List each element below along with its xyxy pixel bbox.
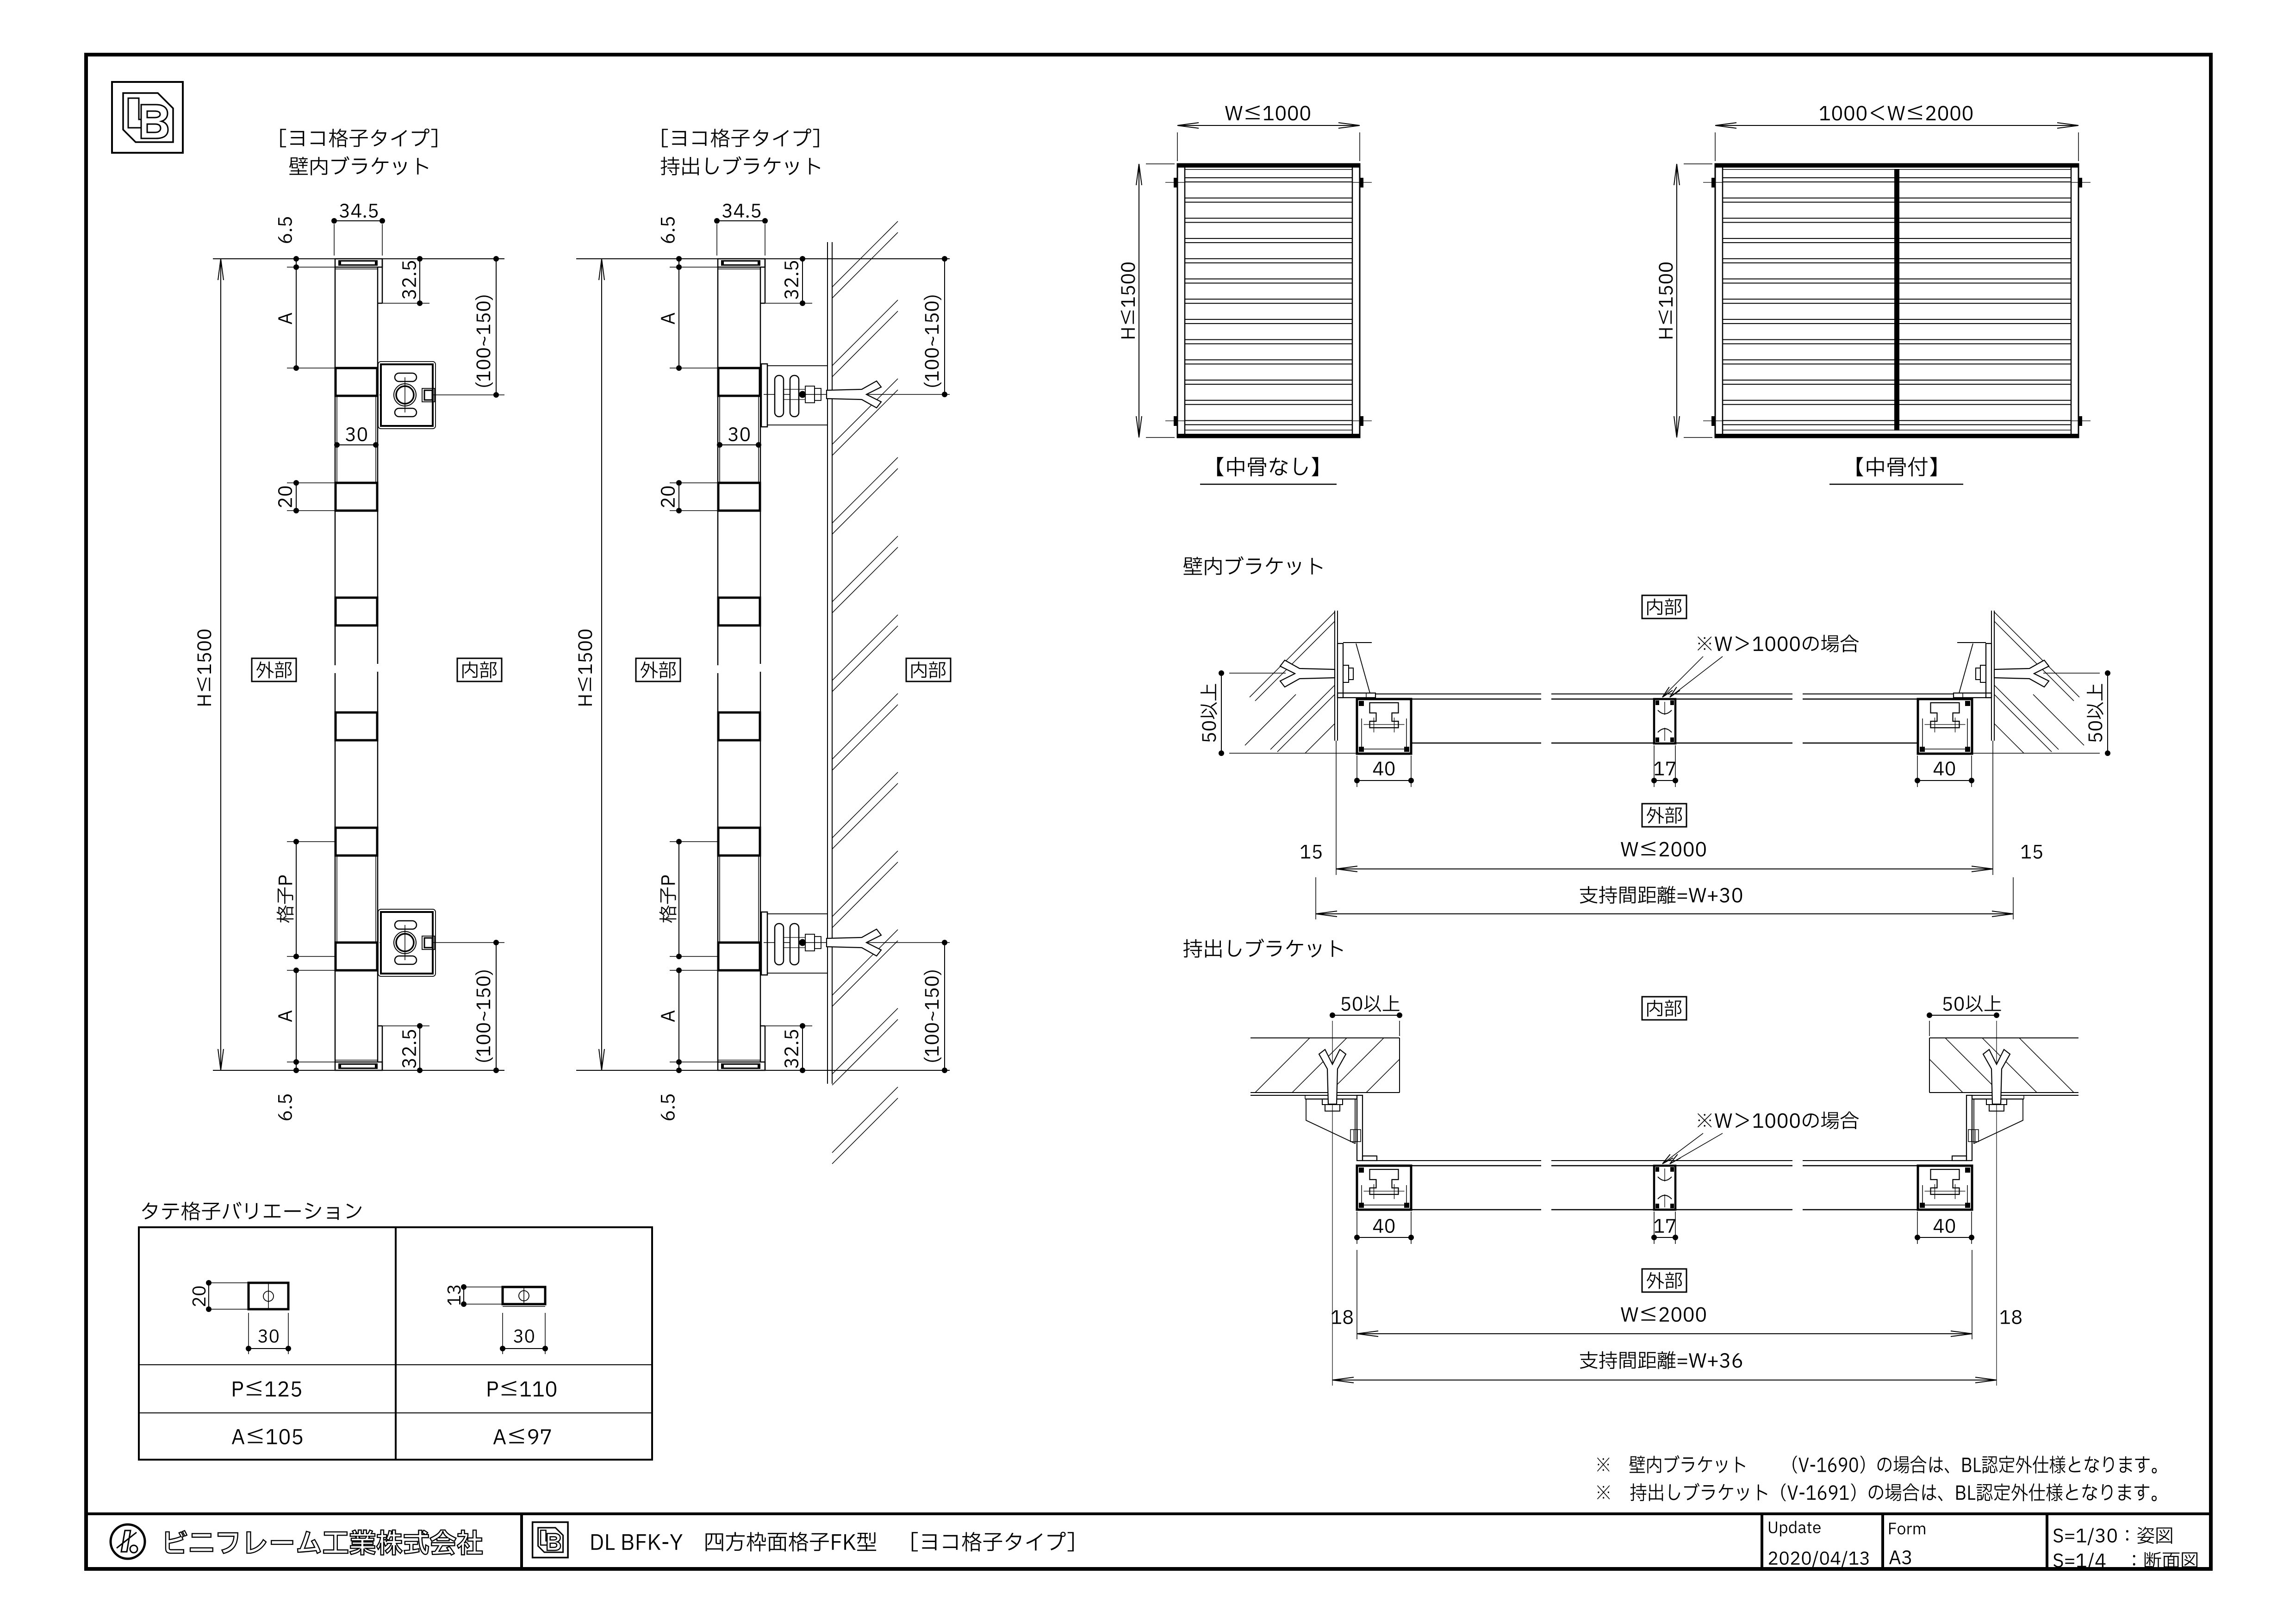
dim 40 left: [1356, 1212, 1357, 1244]
vertical frame bar (section): [717, 267, 719, 665]
anchor bolt (hs1 left): [1980, 665, 1986, 682]
support centerline (hs2 left): [1996, 1021, 1997, 1250]
dim 格子P pitch: [296, 842, 297, 956]
wall cut (hs1 left): [1334, 611, 1335, 741]
label 内部 (hs1): [1642, 595, 1686, 618]
dim W≦1000: [1177, 106, 1360, 161]
dim 支持間距離=W+30 (hs1): [1316, 877, 2013, 919]
tube inner walls at bracket gaps: [719, 397, 720, 482]
lattice bar cross-section 2: [718, 483, 760, 511]
wall bracket top (view1): [378, 362, 504, 429]
dim A bottom: [296, 970, 297, 1062]
front view 1 (中骨なし): [1165, 164, 1372, 437]
heading 持出しブラケット (horizontal section 2): [1183, 939, 1343, 958]
bottom cap: [335, 1062, 382, 1070]
dim 50以上 right (hs2): [1927, 995, 2001, 1036]
dim 6.5 bottom: [296, 1062, 297, 1070]
right stile box (hs2): [1918, 1166, 1972, 1210]
dim 格子P pitch: [678, 842, 679, 956]
Scale cell: [2053, 1527, 2197, 1570]
Form cell: [1889, 1523, 1925, 1564]
lattice bar cross-section 5: [718, 828, 760, 856]
dim 40 right: [1917, 756, 1918, 787]
label 内部 (view2): [906, 658, 951, 681]
dim 17 center: [1654, 1212, 1655, 1244]
support centerline (hs2 left): [1332, 1021, 1333, 1250]
section view 1 left dimension column: [277, 217, 335, 1120]
lattice bar cross-section 5: [336, 828, 377, 856]
table タテ格子バリエーション: [142, 1202, 361, 1220]
soffit and bracket right (hs2, mirrored): [1929, 1021, 2078, 1250]
note line 1: [1597, 1455, 2157, 1474]
drawing title DL BFK-Y: [591, 1532, 1074, 1552]
dim 1000<W≦2000: [1715, 106, 2078, 161]
dim 30 tube depth: [717, 442, 722, 448]
section view 1 title [ヨコ格子タイプ] 壁内ブラケット: [280, 129, 437, 175]
dim A bottom: [678, 970, 679, 1062]
lattice bar cross-section 1: [718, 368, 760, 396]
label 外部 (hs1): [1642, 804, 1686, 827]
dim 50以上 right (hs1): [1973, 670, 2110, 756]
dim W≦2000 (hs2): [1332, 1250, 2022, 1339]
dim 13 (right tube): [448, 1284, 502, 1307]
section view 2 left dimension column: [660, 217, 718, 1120]
lattice bar cross-section 4: [718, 712, 760, 740]
label 外部 (hs2): [1642, 1269, 1686, 1292]
lattice bar cross-section 6: [718, 943, 760, 970]
wall (view2) with hatch: [828, 221, 898, 1164]
dim (100~150) top (view1): [475, 256, 499, 398]
projecting bracket (hs2 left): [2023, 1095, 2024, 1099]
dim 40 left: [1356, 756, 1357, 787]
label 外部 (view2): [636, 658, 680, 681]
dim 30 tube depth: [334, 442, 340, 448]
lattice bars fv1: [1185, 178, 1352, 182]
wall and in-wall bracket right (hs1, mirrored): [1954, 611, 2084, 753]
vertical frame bar (section): [335, 267, 336, 665]
soffit (hs2 left) with hatch: [1251, 1037, 1400, 1038]
grille panel (hs1): [1357, 694, 1972, 743]
note ※W>1000の場合 with leaders (hs1): [1662, 635, 1859, 697]
front view frame fv2: [1715, 164, 2078, 437]
label 内部 (hs2): [1642, 997, 1686, 1020]
center mullion box (hs2): [1654, 1166, 1675, 1210]
dim 30 (left tube): [246, 1313, 291, 1354]
in-wall L bracket (hs1 left): [1986, 643, 1991, 698]
dim W≦2000 (hs1): [1300, 741, 2042, 875]
lattice bar cross-section 6: [336, 943, 377, 970]
grille panel (hs2): [1357, 1161, 1972, 1210]
bottom reference line: [213, 1070, 504, 1071]
left stile box (hs2): [1357, 1166, 1411, 1210]
dim (100~150) top (view2): [924, 256, 947, 397]
heading 壁内ブラケット (horizontal section 1): [1183, 556, 1323, 575]
label 【中骨なし】: [1200, 457, 1337, 484]
projecting bracket bottom (view2): [761, 912, 950, 975]
lattice bars fv2: [1723, 178, 2071, 182]
dim A top: [678, 267, 679, 368]
right tube section 30x13: [503, 1287, 545, 1306]
left tube section 30x20: [249, 1283, 288, 1309]
wall cut (hs1 left): [1994, 611, 1995, 741]
lattice bar cross-section 2: [336, 483, 377, 511]
dim 32.5 bottom (view1): [382, 1023, 429, 1073]
company logo circle: [111, 1524, 145, 1559]
center mullion box (hs1): [1654, 699, 1675, 743]
front view 2 (中骨付): [1703, 164, 2091, 437]
dim 20 (left tube): [193, 1280, 248, 1312]
dim (100~150) bottom (view2): [924, 940, 947, 1073]
dim 32.5 top (view2): [765, 256, 812, 306]
top cap: [335, 259, 382, 267]
dim 6.5 bottom: [678, 1062, 679, 1070]
lattice bar cross-section 3: [718, 598, 760, 625]
left stile box (hs1): [1357, 699, 1411, 754]
section view 2 (持出しブラケット): [576, 204, 950, 1070]
wall and in-wall bracket left (hs1): [1245, 611, 1375, 753]
table row A values: [232, 1429, 551, 1444]
front view frame fv1: [1177, 164, 1360, 437]
dim 6.5 top: [678, 259, 679, 267]
lattice bar cross-section 4: [336, 712, 377, 740]
Update cell: [1769, 1521, 1869, 1567]
label 【中骨付】: [1829, 457, 1963, 484]
tube inner walls at bracket gaps: [336, 397, 337, 482]
wall-side flange top: [382, 259, 383, 303]
mounting tab pair fv2: [1711, 416, 1715, 426]
center mullion fv2: [1895, 169, 1899, 430]
lattice bar cross-section 3: [336, 598, 377, 625]
dim 32.5 top (view1): [382, 256, 429, 306]
table row P values: [233, 1381, 556, 1397]
mounting tab pair fv1: [1174, 416, 1177, 426]
dim 17 center: [1654, 745, 1655, 787]
top reference line: [213, 258, 504, 259]
wall-side flange bottom: [765, 1026, 766, 1070]
label 外部 (view1): [252, 658, 296, 681]
mounting tab pair fv1: [1174, 178, 1177, 187]
note line 2: [1597, 1483, 2157, 1501]
right stile box (hs1): [1918, 699, 1972, 754]
bottom reference line: [576, 1070, 950, 1071]
dim 20 lattice bar height: [296, 483, 297, 511]
wall-side flange top: [765, 259, 766, 303]
dim 32.5 bottom (view2): [765, 1023, 812, 1073]
dim (100~150) bottom (view1): [475, 940, 499, 1073]
dim 30 (right tube): [500, 1313, 548, 1354]
dim 34.5: [717, 220, 765, 221]
dim 40 right: [1917, 1212, 1918, 1244]
dim 50以上 left (hs2): [1330, 995, 1402, 1036]
projecting bracket top (view2): [761, 364, 950, 427]
section view 2 title [ヨコ格子タイプ] 持出しブラケット: [661, 129, 821, 175]
wall bracket bottom (view1): [378, 909, 504, 976]
soffit and bracket left (hs2): [1251, 1021, 1400, 1250]
anchor bolt (hs1 left): [1343, 665, 1349, 682]
wall-side flange bottom: [382, 1026, 383, 1070]
lattice bar cross-section 1: [336, 368, 377, 396]
section view 1 (壁内ブラケット): [197, 204, 504, 1070]
note ※W>1000の場合 with leaders (hs2): [1662, 1112, 1859, 1164]
dim A top: [296, 267, 297, 368]
mounting tab pair fv2: [1711, 178, 1715, 187]
H dimension line with arrows: [220, 259, 221, 1070]
dim 支持間距離=W+36 (hs2): [1332, 1250, 1997, 1386]
dim H≦1500 (front view 1): [1120, 164, 1175, 437]
top cap: [718, 259, 765, 267]
soffit (hs2 left) with hatch: [1929, 1037, 2078, 1038]
dim 50以上 left (hs1): [1201, 670, 1356, 756]
top reference line: [576, 258, 950, 259]
dim 34.5: [334, 220, 382, 221]
H dimension line with arrows: [601, 259, 602, 1070]
small LB logo in title block: [533, 1522, 568, 1558]
company name ビニフレーム工業株式会社: [166, 1530, 482, 1555]
dim H≦1500 (front view 2): [1658, 164, 1712, 437]
table grid: [139, 1227, 652, 1460]
bottom cap: [718, 1062, 765, 1070]
dim 6.5 top: [296, 259, 297, 267]
dim 20 lattice bar height: [678, 483, 679, 511]
title block grid: [86, 1514, 2211, 1569]
LB logo badge top-left: [112, 82, 183, 153]
projecting bracket (hs2 left): [1305, 1095, 1306, 1099]
label 内部 (view1): [457, 658, 502, 681]
in-wall L bracket (hs1 left): [1338, 643, 1343, 698]
